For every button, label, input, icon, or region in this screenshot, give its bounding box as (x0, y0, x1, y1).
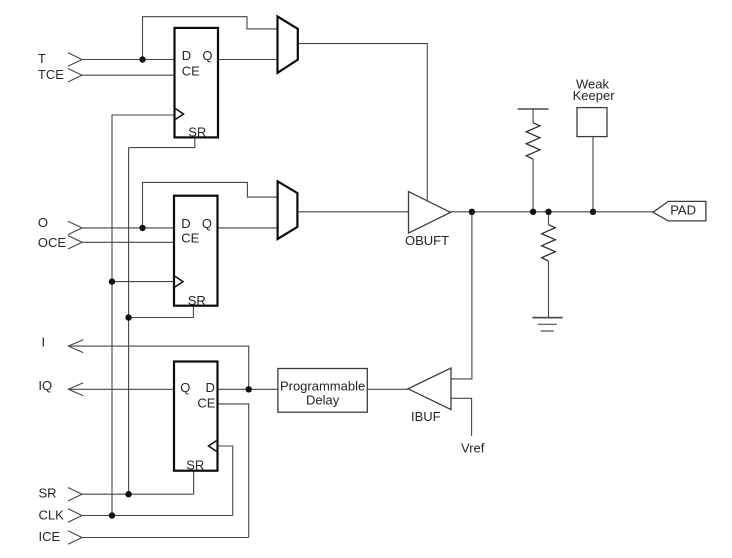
wire O feedback to mux M2 (143, 182, 278, 228)
svg-text:Keeper: Keeper (573, 88, 616, 103)
input chevron CLK (68, 509, 82, 522)
svg-text:CLK: CLK (39, 508, 65, 523)
svg-text:D: D (182, 48, 191, 63)
wire Q2 output to mux M2 (218, 227, 278, 229)
node pull-up tap (530, 209, 536, 215)
wire pull-down resistor stub bottom (548, 261, 550, 318)
flip-flop FF2 (output flip-flop) (174, 196, 218, 306)
wire Vref stub (451, 398, 472, 436)
input chevron ICE (68, 531, 82, 544)
output arrow I (68, 340, 83, 353)
wire SR input (82, 493, 194, 495)
node T feedback tap (139, 56, 145, 62)
wire T feedback to mux M1 (143, 17, 278, 60)
svg-text:OBUFT: OBUFT (405, 233, 449, 248)
op-amp-style buffer OBUFT (409, 192, 451, 234)
wire pull-up resistor stub bottom (532, 159, 534, 212)
svg-text:D: D (181, 216, 190, 231)
svg-text:I: I (42, 334, 46, 349)
wire T input (82, 59, 175, 61)
node OBUFT output (469, 209, 475, 215)
node CLK row junction (109, 512, 115, 518)
flip-flop FF1 (T flip-flop) (175, 28, 219, 137)
box Weak Keeper (577, 108, 607, 137)
flip-flop FF3 (input flip-flop) (174, 362, 218, 471)
node junction dots (109, 56, 596, 518)
node FF2 SR tap (125, 314, 131, 320)
FF1 clock triangle (175, 108, 184, 120)
input chevron TCE (68, 69, 82, 82)
wire I output (69, 346, 249, 389)
node I / delay tap (246, 386, 252, 392)
wire FF3 SR (193, 471, 195, 495)
box Programmable Delay (278, 369, 367, 413)
wire FF3 CE to ICE (218, 404, 249, 538)
wire mux M1 output to OBUFT control (298, 44, 428, 201)
resistor pull-down (542, 225, 556, 261)
svg-text:T: T (38, 51, 46, 66)
wire ICE input (82, 537, 249, 539)
svg-text:Q: Q (180, 380, 190, 395)
FF3 clock triangle (209, 440, 218, 452)
ground symbol (532, 318, 562, 331)
svg-text:OCE: OCE (38, 235, 67, 250)
power rail (Vcc bar) (518, 108, 549, 110)
wire pad node to IBUF input (451, 212, 472, 379)
svg-text:CE: CE (197, 396, 215, 411)
mux M1 (278, 16, 298, 72)
node SR row junction (125, 491, 131, 497)
svg-text:Q: Q (202, 216, 212, 231)
node weak keeper tap (590, 209, 596, 215)
wire FF1 SR (129, 137, 195, 147)
svg-text:D: D (206, 380, 215, 395)
wire FF1 clock (112, 114, 175, 116)
resistor pull-up (526, 123, 540, 159)
wire Programmable Delay to FF3 D (218, 388, 278, 390)
wire OBUFT output to PAD (451, 211, 654, 213)
svg-text:Q: Q (202, 48, 212, 63)
svg-text:IBUF: IBUF (411, 409, 441, 424)
wire FF3 clock to CLK (218, 446, 233, 516)
wire O input (82, 227, 174, 229)
wire SR vertical net (128, 148, 130, 495)
wire weak keeper stub (592, 137, 594, 212)
svg-text:TCE: TCE (38, 67, 64, 82)
input chevron SR (68, 488, 82, 501)
svg-text:SR: SR (186, 458, 204, 473)
wire mux M2 output to OBUFT input (297, 211, 408, 213)
wire FF2 SR (129, 306, 194, 318)
wire Q1 output to mux M1 (218, 59, 278, 61)
input chevron T (68, 53, 82, 66)
svg-text:SR: SR (188, 293, 206, 308)
svg-text:CE: CE (181, 231, 199, 246)
wire IBUF output to Programmable Delay (367, 388, 408, 390)
wire CLK input (82, 515, 233, 517)
mux M2 (278, 181, 298, 239)
wire pull-down resistor stub top (548, 212, 550, 225)
output arrow IQ (68, 383, 83, 396)
wire FF2 clock (112, 281, 174, 283)
svg-text:SR: SR (188, 125, 206, 140)
node O feedback tap (139, 225, 145, 231)
svg-text:SR: SR (39, 486, 57, 501)
svg-text:O: O (38, 215, 48, 230)
svg-text:Delay: Delay (306, 392, 340, 407)
wire CLK vertical net (111, 115, 113, 516)
PAD pentagon (653, 201, 706, 221)
wire pull-up resistor stub top (532, 109, 534, 123)
wire OCE input (82, 241, 174, 243)
node pull-down tap (545, 209, 551, 215)
svg-text:ICE: ICE (39, 529, 61, 544)
wire IQ output (69, 388, 174, 390)
input chevron OCE (68, 236, 82, 249)
buffer IBUF (408, 368, 451, 410)
node FF2 clock tap (109, 278, 115, 284)
svg-text:IQ: IQ (38, 378, 52, 393)
svg-text:PAD: PAD (670, 202, 696, 217)
svg-text:Vref: Vref (461, 440, 485, 455)
svg-text:CE: CE (182, 64, 200, 79)
input chevron O (68, 221, 82, 234)
wire TCE input (82, 74, 175, 76)
FF2 clock triangle (174, 276, 183, 288)
